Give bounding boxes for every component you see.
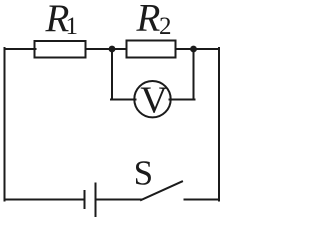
node B junction dot [190,46,197,53]
wire bottom-right segment [185,199,220,201]
voltmeter V circle [134,81,170,117]
wire top-right segment [194,48,220,50]
wire voltmeter branch right horizontal [170,99,195,101]
battery cell positive plate (long) [95,184,97,217]
wire node A to R2 [112,48,127,50]
wire battery to switch [96,199,142,201]
wire R1 to node A [86,48,113,50]
svg-text:S: S [134,153,153,192]
wire voltmeter branch left horizontal [111,99,136,101]
node A junction dot [109,46,116,53]
resistor R1 [35,41,86,58]
svg-text:V: V [140,80,168,122]
wire top-left segment [5,48,36,50]
switch S lever (open) [141,182,182,201]
wire node B down to voltmeter branch [193,49,195,100]
wire right side [218,48,220,201]
wire left side [4,48,6,201]
resistor R2 [127,41,176,58]
svg-text:2: 2 [159,13,172,40]
wire bottom-left segment [5,199,85,201]
svg-text:R: R [136,0,161,40]
svg-text:1: 1 [66,13,79,40]
battery cell negative plate (short) [84,191,86,208]
wire R2 to node B [176,48,194,50]
wire node A down to voltmeter branch [111,49,113,100]
